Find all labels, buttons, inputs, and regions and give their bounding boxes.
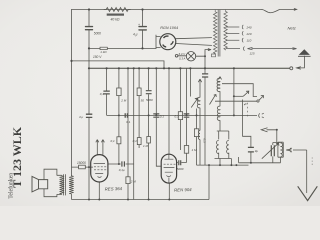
resistor R1 zigzag — [104, 8, 130, 12]
tap wire 240 — [226, 25, 243, 29]
junction node J14 at 169,68.3 — [168, 67, 170, 69]
resistor R10 grid leak — [72, 166, 94, 168]
junction node J3 at 71.5,60.9 — [70, 60, 72, 62]
svg-text:110: 110 — [247, 39, 252, 43]
junction node J4 at 89,48.4 — [88, 47, 90, 49]
rectifier U1 cathode bracket — [156, 35, 160, 49]
svg-text:0,1: 0,1 — [160, 115, 165, 119]
wire top bus — [72, 9, 263, 11]
junction node J27 at 233.9,115.4 — [233, 114, 235, 116]
wire heater feed — [89, 47, 156, 49]
svg-text:150 V: 150 V — [93, 55, 102, 59]
wire lamp right — [196, 49, 211, 68]
wire drop x133.7 — [133, 68, 135, 199]
svg-text:5000: 5000 — [177, 167, 184, 171]
junction node J13 at 164,68.3 — [163, 67, 165, 69]
wire drop x106 — [106, 68, 108, 115]
svg-text:4 μ: 4 μ — [79, 115, 84, 119]
coil L1 — [197, 97, 200, 108]
resistor R5 — [137, 88, 141, 96]
wire drop x118.9 — [118, 68, 120, 164]
dial lamp — [175, 52, 195, 61]
wire lamp left — [178, 55, 186, 57]
rf choke line x200 — [198, 79, 201, 98]
svg-text:0,1: 0,1 — [100, 92, 105, 96]
junction node J29 at 250.9,162.8 — [250, 162, 252, 164]
svg-text:5000: 5000 — [94, 32, 101, 36]
junction node J22 at 156.3,115.4 — [155, 114, 157, 116]
resistor R12 — [100, 47, 107, 49]
resistor R2 — [117, 88, 121, 96]
junction node J16 at 190.4,68.3 — [189, 67, 191, 69]
svg-text:125: 125 — [250, 52, 255, 56]
svg-text:2 M: 2 M — [120, 99, 127, 103]
bottom wire right — [239, 157, 281, 163]
capacitor C2 — [139, 27, 146, 30]
dots marks — [311, 158, 313, 165]
junction node J12 at 156.3,68.3 — [155, 67, 157, 69]
wire x89 lower cap C10 — [88, 68, 90, 199]
wire arrow left — [261, 128, 277, 132]
junction node J38 at 89,167.1 — [88, 166, 90, 168]
junction node J2 at 142.5,9.5 — [141, 8, 143, 10]
coil L6 — [227, 140, 229, 153]
wire grid tube1 — [96, 140, 105, 155]
wire switch pole — [196, 109, 198, 166]
svg-text:0,3 A: 0,3 A — [179, 57, 186, 61]
svg-text:4μ: 4μ — [255, 149, 259, 153]
tube2 right wire w/ cap C12 — [176, 162, 186, 164]
junction node J36 at 148.6,199.5 — [148, 199, 150, 201]
capacitor C5 — [153, 114, 159, 117]
antenna arrowhead — [298, 186, 318, 200]
wave switch arrow 3 — [257, 100, 259, 102]
wire drop x169 tube2 anode — [168, 68, 170, 154]
coil L3 x220 — [218, 77, 221, 80]
junction node J21 at 118.9,115.4 — [118, 114, 120, 116]
tap wire 110 — [226, 38, 243, 42]
wire drop x139 — [138, 68, 140, 148]
wire coupling top — [222, 84, 257, 97]
earth arrow — [297, 67, 301, 69]
secondary top lead — [225, 10, 227, 11]
junction node J18 at 233.9,68.3 — [233, 67, 235, 69]
capacitor C6 — [184, 114, 190, 117]
svg-text:0,1μ: 0,1μ — [119, 168, 125, 172]
output tube V1 — [91, 155, 108, 182]
svg-text:50: 50 — [141, 99, 145, 103]
bottom bus — [72, 199, 210, 201]
junction node J33 at 209,165.1 — [208, 164, 210, 166]
junction node J28 at 276.8,129.8 — [276, 129, 278, 131]
svg-text:220: 220 — [246, 32, 252, 36]
junction node J24 at 186.5,115.4 — [186, 114, 188, 116]
capacitor C3 — [103, 91, 109, 94]
secondary winding — [224, 11, 227, 50]
capacitor C1 — [86, 27, 93, 30]
svg-text:RGN 1064: RGN 1064 — [160, 26, 178, 30]
junction node J23 at 148.6,115.4 — [148, 114, 150, 116]
resistor R4 — [126, 177, 130, 184]
right riser — [208, 165, 210, 199]
svg-text:RES 364: RES 364 — [105, 186, 123, 192]
trimmer arrow — [210, 95, 217, 105]
earth symbol — [297, 56, 305, 68]
wire drop x128 — [127, 68, 129, 199]
junction node J9 at 133.7,68.3 — [133, 67, 135, 69]
junction node J25 at 196.5,115.4 — [196, 114, 198, 116]
phono jack — [259, 113, 264, 118]
wire drop x205 capacitor C7 — [204, 68, 206, 165]
core — [218, 10, 220, 57]
svg-text:6,3 V: 6,3 V — [179, 52, 187, 56]
contact C mark — [244, 104, 246, 105]
resistor R11 — [147, 137, 151, 144]
junction node J19 at 205,56.2 — [204, 55, 206, 57]
junction node J31 at 231.4,165.1 — [230, 164, 232, 166]
hatched resistor body R1 — [107, 14, 124, 16]
svg-text:Netz: Netz — [288, 26, 296, 31]
transformer T1 — [212, 10, 228, 57]
gang dashed line — [247, 103, 249, 117]
resistor R3 — [117, 137, 121, 144]
tube2 bottom pin — [168, 183, 170, 199]
antenna lead — [306, 150, 308, 193]
mains switch S1 — [262, 9, 297, 13]
svg-text:0,5: 0,5 — [202, 139, 206, 144]
svg-text:+: + — [138, 23, 140, 27]
wave switch arrow 2 — [243, 91, 249, 96]
tap wire 220 — [226, 31, 243, 35]
rectifier tube U1 — [160, 34, 176, 50]
wire line 150V — [72, 61, 165, 68]
capacitor C8 — [248, 147, 254, 152]
wire drop x190.4 — [189, 68, 191, 96]
tap wire 125 with arrow — [226, 47, 296, 51]
svg-text:240: 240 — [246, 25, 252, 29]
svg-text:0,1: 0,1 — [111, 139, 116, 143]
resistor R6 — [137, 138, 141, 145]
junction node J11 at 148.6,68.3 — [148, 67, 150, 69]
wire drop x156 — [156, 68, 161, 166]
svg-text:1 M: 1 M — [143, 144, 149, 148]
bus end terminal — [290, 67, 293, 70]
detector tube V2 — [161, 154, 176, 183]
lower bus — [197, 164, 249, 166]
wire avc line — [107, 114, 257, 116]
svg-text:1 kΩ: 1 kΩ — [100, 50, 107, 54]
ant coil L7 — [278, 142, 283, 163]
tube1 bottom pin — [98, 182, 100, 200]
tube2 grid wire — [160, 166, 162, 168]
tuning cap C9 — [273, 130, 280, 163]
junction node J5 at 142.5,48.4 — [141, 47, 143, 49]
main bus B+ — [89, 67, 290, 69]
junction node J8 at 128,68.3 — [127, 67, 129, 69]
svg-text:0,1: 0,1 — [126, 120, 131, 124]
capacitor C13 in avc line — [125, 113, 127, 118]
junction node J1 at 89,9.5 — [88, 8, 90, 10]
wire drop x89 — [88, 10, 90, 69]
junction node J40 at 89,68.3 — [88, 67, 90, 69]
wire drop x148 capacitor C4 — [148, 68, 150, 199]
svg-text:15000: 15000 — [77, 161, 86, 165]
frame left edge — [71, 10, 73, 176]
primary winding — [214, 11, 217, 54]
antenna tap arrow — [286, 148, 307, 152]
wire drop x181.5 — [179, 68, 181, 150]
svg-text:REN 904: REN 904 — [174, 187, 192, 193]
primary top lead — [214, 10, 216, 12]
IF transformer bracket — [217, 131, 229, 139]
svg-text:40 kΩ: 40 kΩ — [111, 17, 120, 21]
junction node J26 at 233.9,96.3 — [233, 95, 235, 97]
svg-text:0,1: 0,1 — [133, 139, 138, 143]
wire rectifier to transformer heater — [176, 38, 212, 46]
junction node J7 at 118.9,68.3 — [118, 67, 120, 69]
wire drop x188 — [186, 68, 188, 162]
output transformer core — [64, 174, 66, 195]
svg-text:5000: 5000 — [146, 98, 153, 102]
wire band line — [233, 68, 235, 115]
coil L4 — [217, 106, 220, 120]
wave switch arrow 1 — [191, 98, 198, 107]
junction node J35 at 128,199.5 — [127, 199, 129, 201]
earth dome — [299, 49, 310, 55]
junction node J37 at 169.3,199.5 — [168, 199, 170, 201]
junction node J17 at 205,68.3 — [204, 67, 206, 69]
wire drop x243 — [243, 100, 251, 163]
junction node J34 at 99.3,199.5 — [98, 199, 100, 201]
primary bottom terminal — [212, 54, 216, 57]
output transformer primary — [60, 175, 65, 194]
tube1 right wire w/ cap C11 — [108, 163, 134, 165]
wire drop x142 — [142, 10, 144, 49]
coil L2 — [199, 131, 200, 140]
svg-text:1 M: 1 M — [192, 148, 198, 152]
junction node J20 at 118.9,164 — [118, 163, 120, 165]
resistor R8 — [184, 146, 188, 154]
junction node J15 at 180.4,68.3 — [179, 67, 181, 69]
junction node J6 at 106.6,68.3 — [106, 67, 108, 69]
resistor R9 — [194, 129, 198, 137]
junction node J10 at 139.1,68.3 — [138, 67, 140, 69]
junction node J32 at 236.4,165.1 — [235, 164, 237, 166]
junction node J39 at 89,199.5 — [88, 199, 90, 201]
resistor R7 — [178, 112, 182, 120]
svg-text:0,3: 0,3 — [175, 115, 180, 119]
speaker — [39, 180, 48, 189]
coil L5 — [216, 140, 218, 153]
speaker leads — [44, 169, 57, 197]
svg-text:2 M: 2 M — [130, 180, 137, 184]
junction node J30 at 220,165.1 — [219, 164, 221, 166]
output transformer secondary — [69, 175, 74, 194]
svg-text:T 123 WLK: T 123 WLK — [10, 126, 24, 188]
svg-text:4 μ: 4 μ — [133, 33, 138, 37]
brand text — [7, 126, 24, 199]
